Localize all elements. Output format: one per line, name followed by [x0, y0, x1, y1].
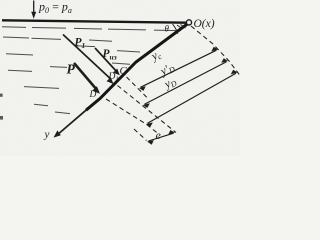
- label y'_D: [158, 61, 177, 79]
- dimension line y_D: [146, 70, 238, 127]
- y axis arrowhead: [54, 130, 61, 137]
- hatch dash under P1: [75, 45, 95, 48]
- angle theta arc: [173, 24, 178, 34]
- hatch dash row4: [8, 70, 32, 71]
- hatch dash row6: [34, 104, 48, 106]
- scan noise texture: [0, 0, 1, 1]
- hatch dash row2 mid: [32, 38, 62, 39]
- hatch dash row5: [24, 87, 59, 89]
- inclined wall (plate): [86, 24, 188, 111]
- hatch dash row2 right: [89, 40, 112, 41]
- hatch dash row2 left: [3, 37, 29, 38]
- witness dashed line from C: [127, 77, 148, 98]
- force arrow Piz: [95, 48, 120, 75]
- hatch dash row7: [55, 112, 70, 114]
- y axis extension of wall: [57, 110, 87, 135]
- angle wedge shading: [177, 25, 186, 29]
- dimension line y_c: [139, 47, 218, 91]
- label y_c: [149, 48, 164, 64]
- witness dashed line from D1: [118, 86, 177, 133]
- force arrow P (total): [74, 63, 100, 94]
- dimension line e: [147, 130, 175, 145]
- force arrow P1: [63, 35, 114, 85]
- circle O (origin): [186, 20, 191, 25]
- arrow p0 (surface pressure arrow): [31, 1, 36, 19]
- dimension line y'_D: [143, 58, 228, 108]
- witness dashed line from D: [106, 99, 158, 134]
- water surface line: [2, 20, 187, 22]
- hatch dash right of Piz: [117, 51, 140, 52]
- hatch dash left of P: [50, 66, 67, 69]
- hatch dash above C: [112, 63, 130, 64]
- witness stub at e left: [134, 129, 147, 141]
- edge speck 1: [0, 94, 3, 97]
- label y_D: [162, 75, 179, 92]
- hatch dash row3 left: [6, 54, 33, 55]
- edge speck 2: [0, 116, 3, 120]
- hatch row under surface: [2, 27, 178, 31]
- dashed line from O (perpendicular baseline): [191, 26, 240, 76]
